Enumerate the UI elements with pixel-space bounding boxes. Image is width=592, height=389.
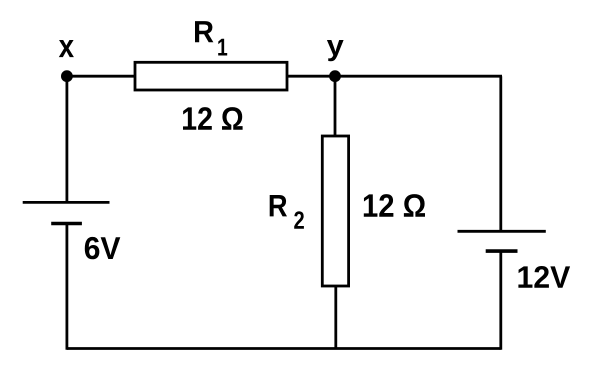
value label 12 ohm (R1) <box>183 107 243 130</box>
node x junction dot <box>61 70 73 82</box>
resistor R2 <box>322 136 348 286</box>
value label 12V <box>518 266 570 288</box>
label R2 subscript 2 <box>294 211 304 229</box>
label R1 subscript 1 <box>218 39 227 56</box>
wire: bottom rail <box>67 347 501 350</box>
battery 6V: short (negative) plate <box>51 222 82 226</box>
wire: 6V battery bottom to bottom rail <box>66 224 69 350</box>
battery 6V: long (positive) plate <box>23 201 110 204</box>
node y junction dot <box>329 70 341 82</box>
battery 12V: long (positive) plate <box>458 230 546 233</box>
wire: R2 bottom to bottom rail <box>334 286 337 349</box>
node label x <box>59 40 74 57</box>
battery 12V: short (negative) plate <box>486 249 518 253</box>
wire: right vertical down to 12V battery top plate <box>499 76 502 231</box>
label R1 <box>195 21 213 42</box>
value label 12 ohm (R2) <box>364 194 425 217</box>
value label 6V <box>85 237 121 259</box>
wire: left vertical from node x down to 6V battery top plate <box>66 76 69 202</box>
label R2 <box>270 195 287 216</box>
resistor R1 <box>135 62 287 90</box>
wire: 12V battery bottom to bottom rail <box>499 251 502 350</box>
wire: R1 right to top-right corner <box>286 75 502 78</box>
wire: node y down to R2 top <box>334 76 337 136</box>
node label y <box>327 40 344 61</box>
wire: node x to R1 left <box>66 75 136 78</box>
